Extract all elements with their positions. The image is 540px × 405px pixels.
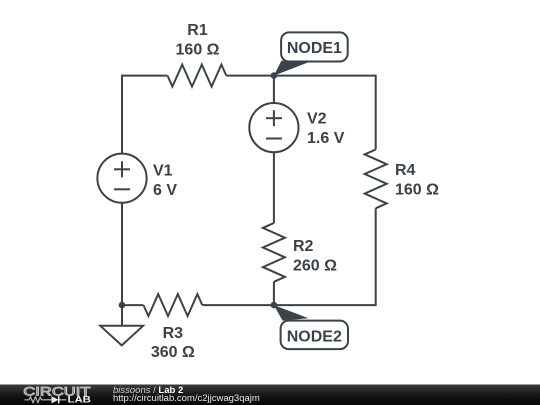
ground junction dot — [119, 302, 126, 309]
voltage source V2 — [249, 103, 298, 152]
svg-text:R4: R4 — [395, 162, 416, 179]
resistor R1 — [168, 65, 227, 87]
V2 plus sign — [266, 117, 282, 119]
ground stub wire — [121, 305, 123, 326]
node B junction dot — [271, 302, 278, 309]
svg-text:360 Ω: 360 Ω — [151, 344, 195, 361]
wire R4 to bottom-right corner — [274, 208, 376, 305]
svg-text:260 Ω: 260 Ω — [293, 257, 337, 274]
node NODE2 label box — [281, 321, 348, 350]
NODE1 callout wedge — [274, 61, 309, 76]
V1 minus sign — [114, 188, 130, 190]
svg-text:V1: V1 — [153, 163, 173, 180]
svg-text:160 Ω: 160 Ω — [176, 41, 220, 58]
svg-text:1.6 V: 1.6 V — [307, 130, 345, 147]
wire top-left to R1 — [122, 76, 168, 154]
node A junction dot — [271, 72, 278, 79]
resistor R4 — [365, 150, 387, 209]
wire R3 to ground junction — [122, 304, 144, 306]
wire node A to top-right corner — [274, 76, 376, 150]
svg-text:NODE1: NODE1 — [287, 40, 342, 57]
svg-text:LAB: LAB — [68, 395, 92, 405]
NODE2 callout wedge — [274, 305, 309, 321]
node NODE1 label box — [281, 32, 348, 61]
logo diode symbol — [46, 399, 52, 401]
ground — [100, 326, 143, 346]
voltage source V1 — [97, 154, 146, 203]
svg-text:R1: R1 — [187, 22, 208, 39]
svg-text:http://circuitlab.com/c2jjcwag: http://circuitlab.com/c2jjcwag3qajm — [113, 393, 260, 404]
wire V1 bottom to ground junction — [121, 203, 123, 306]
resistor R3 — [144, 294, 203, 316]
svg-text:160 Ω: 160 Ω — [395, 181, 439, 198]
svg-text:NODE2: NODE2 — [287, 329, 342, 346]
wire R1 to node A — [226, 75, 274, 77]
wire node A to V2 top — [273, 76, 275, 104]
svg-text:R3: R3 — [163, 325, 184, 342]
svg-text:R2: R2 — [293, 238, 314, 255]
V2 minus sign — [266, 138, 282, 140]
svg-text:V2: V2 — [307, 111, 327, 128]
resistor R2 — [263, 223, 285, 282]
svg-text:6 V: 6 V — [153, 182, 177, 199]
wire R2 to node B — [273, 282, 275, 305]
logo resistor squiggle — [25, 397, 47, 403]
wire node B to R3 — [202, 304, 274, 306]
wire V2 bottom to R2 — [273, 152, 275, 223]
V1 plus sign — [114, 168, 130, 170]
